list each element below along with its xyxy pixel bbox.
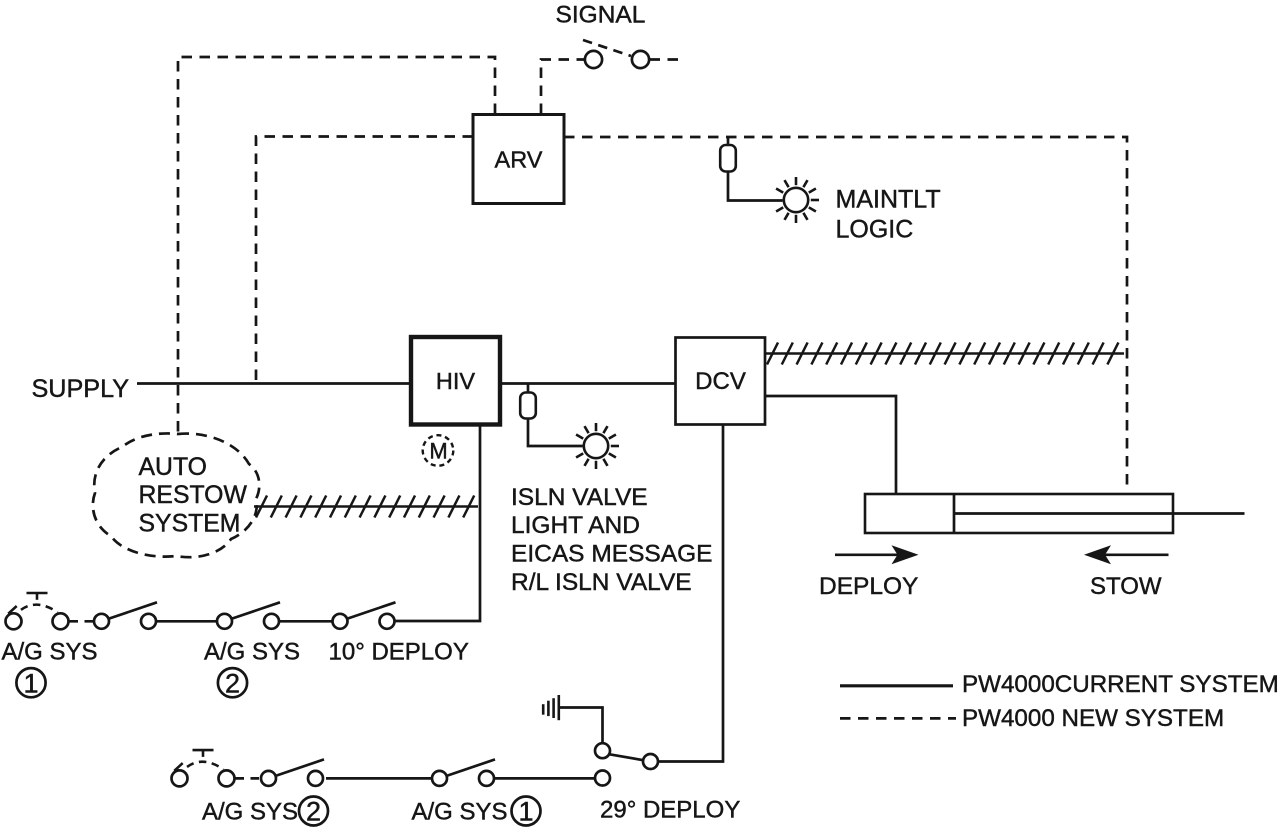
- switch 10 deg deploy: [333, 602, 396, 629]
- svg-text:SIGNAL: SIGNAL: [556, 2, 646, 29]
- svg-text:R/L ISLN VALVE: R/L ISLN VALVE: [511, 569, 692, 596]
- svg-text:A/G SYS: A/G SYS: [2, 639, 98, 666]
- wire dashed: signal branch into ARV top: [541, 60, 584, 115]
- svg-text:AUTO: AUTO: [139, 454, 207, 481]
- wire dashed: ARV right across to actuator: [564, 137, 1127, 492]
- legend dashed line: [840, 717, 956, 720]
- squat switch row1 (air/ground relay): [6, 593, 69, 629]
- squat switch row2 (air/ground relay): [172, 750, 235, 786]
- wire HIV bottom down to 10deg deploy switch row: [395, 425, 481, 621]
- svg-text:M: M: [429, 439, 447, 464]
- motor M (dashed circle): [423, 435, 454, 466]
- mechanical linkage hatch cloud-to-HIV: [254, 496, 478, 518]
- svg-text:DCV: DCV: [695, 368, 746, 395]
- wire supply HIV to DCV: [501, 382, 675, 385]
- wire DCV bottom to 29deg deploy switch: [658, 425, 723, 762]
- svg-text:EICAS MESSAGE: EICAS MESSAGE: [511, 541, 713, 568]
- svg-text:1: 1: [23, 668, 38, 698]
- wire: [156, 620, 217, 623]
- svg-text:29° DEPLOY: 29° DEPLOY: [600, 797, 740, 824]
- arrow deploy: [835, 545, 919, 564]
- switch signal (dashed, open): [583, 40, 649, 68]
- wire supply to HIV: [137, 382, 410, 385]
- svg-text:A/G SYS: A/G SYS: [412, 799, 508, 826]
- actuator cylinder: [865, 494, 1173, 533]
- svg-text:ISLN VALVE: ISLN VALVE: [511, 484, 648, 511]
- legend solid line: [840, 684, 953, 687]
- auto restow system cloud (dashed blob): [93, 433, 259, 557]
- svg-text:HIV: HIV: [436, 368, 476, 394]
- wire: [494, 777, 595, 780]
- svg-text:PW4000CURRENT SYSTEM: PW4000CURRENT SYSTEM: [962, 671, 1279, 698]
- circled 1: [16, 668, 45, 697]
- switch 29 deg deploy (changeover): [595, 743, 658, 769]
- svg-text:A/G SYS: A/G SYS: [202, 799, 298, 826]
- switch A/G SYS 2 row2: [261, 759, 324, 786]
- fuse F1 (maint light link): [727, 137, 730, 146]
- lamp MAINT light: [776, 177, 819, 223]
- circled 1 row2: [512, 797, 541, 826]
- wire ground to 29deg switch: [560, 708, 603, 744]
- svg-text:LIGHT AND: LIGHT AND: [511, 512, 640, 539]
- svg-text:A/G SYS: A/G SYS: [204, 639, 300, 666]
- svg-text:PW4000 NEW SYSTEM: PW4000 NEW SYSTEM: [962, 705, 1224, 732]
- svg-text:10° DEPLOY: 10° DEPLOY: [329, 639, 469, 666]
- circled 2 row2: [299, 797, 328, 826]
- fuse F2 (isln valve light link): [527, 384, 530, 394]
- wire: [326, 777, 432, 780]
- svg-text:MAINTLT: MAINTLT: [836, 186, 941, 214]
- wire: [280, 620, 333, 623]
- valve box DCV: [676, 338, 766, 425]
- svg-text:LOGIC: LOGIC: [836, 215, 914, 243]
- mechanical linkage hatch DCV-to-feedback: [765, 343, 1124, 365]
- svg-text:1: 1: [518, 797, 533, 827]
- svg-text:SYSTEM: SYSTEM: [139, 511, 241, 538]
- switch A/G SYS 2: [217, 602, 280, 629]
- wire dashed short: [236, 777, 260, 780]
- wire dashed: left EEC net, top run down to auto-restow cloud: [178, 57, 495, 433]
- svg-text:SUPPLY: SUPPLY: [32, 375, 130, 403]
- wire to maint lamp: [728, 172, 783, 201]
- svg-text:2: 2: [225, 668, 240, 698]
- valve box HIV (thick): [411, 337, 500, 425]
- contact 29deg alt: [595, 771, 610, 786]
- wire dashed: ARV left to supply line: [256, 137, 473, 383]
- wire dashed short: [70, 620, 94, 623]
- ground: [543, 695, 559, 720]
- svg-text:DEPLOY: DEPLOY: [819, 573, 918, 600]
- lamp ISLN valve light: [576, 423, 619, 469]
- svg-text:RESTOW: RESTOW: [139, 482, 248, 509]
- wire dashed: right of signal switch: [650, 58, 681, 61]
- actuator piston: [953, 494, 956, 533]
- wire to isln lamp: [528, 419, 583, 447]
- svg-text:STOW: STOW: [1090, 573, 1162, 600]
- wire DCV right to actuator: [765, 396, 896, 493]
- actuator rod: [954, 512, 1245, 515]
- switch A/G SYS 1 row2: [432, 759, 495, 786]
- arrow stow: [1084, 545, 1169, 564]
- svg-text:ARV: ARV: [495, 146, 543, 172]
- op box ARV: [473, 115, 564, 204]
- switch A/G SYS 1: [94, 602, 157, 629]
- svg-text:2: 2: [306, 797, 321, 827]
- circled 2: [218, 668, 247, 697]
